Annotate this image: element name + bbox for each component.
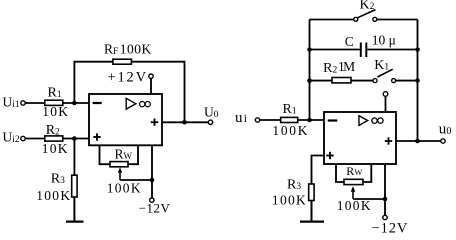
RW wiper arrow: [118, 167, 123, 180]
wire K2 row right: [377, 19, 418, 21]
wire R3 to ground (right): [311, 201, 313, 222]
wire R1 to inverting input: [63, 102, 89, 104]
junction R2 row / left bus: [307, 78, 312, 83]
label RF 100K: [104, 42, 152, 58]
junction C row / right bus: [415, 47, 420, 52]
label +12V: [108, 70, 148, 86]
op-amp A1 gain symbol triangle: [126, 98, 136, 109]
svg-text:100K: 100K: [120, 42, 152, 57]
ground (right): [300, 221, 324, 223]
resistor R2: [45, 136, 63, 141]
power terminal -12V (right): [383, 215, 387, 219]
wire +12V to op-amp V+ pin: [150, 78, 152, 94]
switch K2 left contact: [354, 17, 358, 21]
svg-text:R2: R2: [46, 123, 60, 138]
svg-text:100K: 100K: [272, 193, 307, 208]
svg-text:R1: R1: [283, 102, 297, 117]
node Ui2 input terminal: [21, 136, 25, 140]
wire R2 to noninverting input: [63, 138, 89, 140]
svg-text:−12V: −12V: [139, 200, 171, 215]
power terminal -12V: [150, 198, 154, 202]
resistor R1: [45, 100, 63, 105]
svg-text:ui: ui: [235, 110, 248, 126]
svg-text:Ui1: Ui1: [3, 95, 20, 111]
wire wiper to -12V rail (right): [353, 198, 385, 200]
op-amp A1 body: [89, 94, 162, 145]
wire RW right bracket (right): [363, 164, 371, 182]
op-amp A1 infinity symbol: [140, 102, 151, 107]
label R2: [46, 123, 60, 138]
value 100K of R1 (right): [272, 123, 309, 138]
label RW (right): [346, 164, 362, 178]
wire R1 to inverting input (right): [298, 119, 324, 121]
op-amp A2 body: [324, 112, 396, 164]
wire RW right bracket: [128, 145, 138, 164]
wire RW left bracket (right): [336, 164, 344, 182]
switch K1 right contact: [392, 79, 396, 83]
value 100K of R3 (right): [272, 193, 307, 208]
value 100K of R3: [36, 188, 71, 203]
label U0: [204, 104, 219, 120]
wire op-amp V- pin (right): [384, 164, 386, 215]
label R3: [51, 172, 65, 187]
node Ui1 input terminal: [21, 101, 25, 105]
ground: [66, 221, 84, 223]
label Ui2: [3, 129, 20, 145]
wire op-amp V- pin: [151, 145, 153, 198]
resistor R2 (right): [332, 78, 351, 83]
svg-text:R3: R3: [287, 177, 301, 192]
label ui: [235, 110, 248, 126]
svg-text:10K: 10K: [42, 104, 69, 119]
junction wiper / -12V rail: [150, 178, 155, 183]
label R1: [48, 85, 62, 100]
wire R2 row left: [310, 80, 333, 82]
op-amp A2 gain symbol triangle: [359, 116, 368, 126]
resistor RF: [113, 59, 131, 64]
op-amp A1 output polarity marker: [151, 119, 158, 126]
op-amp A2 inverting input marker: [328, 119, 338, 121]
wire R2 to K1: [351, 80, 373, 82]
op-amp A2 noninverting input marker: [326, 152, 333, 159]
resistor R3 (right): [309, 184, 314, 201]
label Ui1: [3, 95, 20, 111]
RW wiper arrow (right): [351, 186, 356, 199]
svg-text:100K: 100K: [107, 181, 142, 196]
wire C row right: [367, 49, 417, 51]
junction R1 / feedback bus (right): [307, 118, 312, 123]
wire wiper to -12V rail: [120, 179, 152, 181]
wire K2 row left: [310, 19, 354, 21]
potentiometer RW (right): [344, 179, 363, 184]
potentiometer RW: [110, 162, 128, 167]
wire K1 to right bus: [395, 80, 418, 82]
op-amp A2 infinity symbol: [372, 118, 383, 123]
svg-text:K1: K1: [374, 58, 389, 73]
value 10u of C: [372, 32, 396, 47]
wire op-amp output (right): [396, 140, 441, 142]
label K1: [374, 58, 389, 73]
wire Ui1 to R1: [25, 102, 45, 104]
label R2 1M: [323, 59, 355, 76]
label C: [345, 34, 354, 49]
value 100K of RW: [107, 181, 142, 196]
op-amp A1 noninverting input marker: [93, 133, 100, 140]
svg-text:C: C: [345, 34, 354, 49]
svg-text:K2: K2: [360, 0, 375, 13]
label u0: [439, 122, 452, 138]
power terminal V+ (right): [383, 92, 388, 97]
junction wiper / -12V rail (right): [383, 197, 388, 202]
junction output / feedback: [182, 120, 187, 125]
wire feedback left riser: [74, 62, 113, 103]
svg-text:100K: 100K: [36, 188, 71, 203]
junction R2 / R3 node: [72, 136, 77, 141]
switch K2 lever: [358, 10, 376, 18]
label K2: [360, 0, 375, 13]
switch K2 right contact: [373, 17, 377, 21]
wire ui to R1: [260, 119, 281, 121]
switch K1 lever: [377, 69, 392, 77]
svg-text:U0: U0: [204, 104, 219, 120]
svg-text:100K: 100K: [272, 123, 309, 138]
node u0 output terminal: [441, 139, 445, 143]
value 10K of R2: [42, 141, 69, 156]
node ui input terminal: [255, 118, 259, 122]
svg-text:100K: 100K: [337, 198, 372, 213]
wire Ui2 to R2: [25, 138, 45, 140]
wire noninverting input to R3 (right): [312, 156, 325, 185]
wire RF to output node: [131, 62, 184, 123]
node U0 output terminal: [208, 120, 212, 124]
svg-text:RF: RF: [104, 42, 118, 58]
svg-text:Ui2: Ui2: [3, 129, 20, 145]
wire left feedback bus: [309, 20, 311, 121]
capacitor C: [361, 43, 367, 58]
svg-text:RW: RW: [115, 146, 133, 161]
svg-text:10K: 10K: [42, 141, 69, 156]
power terminal +12V: [149, 74, 153, 78]
svg-text:u0: u0: [439, 122, 452, 138]
wire C row left: [310, 49, 360, 51]
svg-text:R3: R3: [51, 172, 65, 187]
svg-text:10 μ: 10 μ: [372, 32, 396, 47]
junction K1 row / right bus: [415, 78, 420, 83]
wire op-amp output: [162, 121, 208, 123]
wire RW left bracket: [100, 145, 111, 164]
wire junction to R3: [73, 139, 75, 176]
value 10K of R1: [42, 104, 69, 119]
value 100K of RW (right): [337, 198, 372, 213]
wire R3 to ground: [73, 197, 75, 222]
op-amp A1 inverting input marker: [93, 102, 102, 104]
svg-text:1M: 1M: [338, 59, 355, 74]
junction output / right bus: [415, 139, 420, 144]
svg-text:−12V: −12V: [372, 221, 409, 233]
resistor R1 (right): [281, 117, 298, 122]
svg-text:R1: R1: [48, 85, 62, 100]
label -12V: [139, 200, 171, 215]
junction C row / left bus: [307, 47, 312, 52]
junction R1 / feedback node: [72, 101, 77, 106]
svg-text:+12V: +12V: [108, 70, 148, 86]
wire V+ terminal to op-amp: [385, 96, 387, 112]
svg-text:RW: RW: [346, 164, 362, 178]
op-amp A2 output polarity marker: [385, 137, 392, 144]
label RW: [115, 146, 133, 161]
switch K1 left contact: [373, 79, 377, 83]
svg-text:R2: R2: [323, 61, 337, 76]
wire right feedback bus: [417, 20, 419, 142]
resistor R3: [72, 175, 77, 197]
label -12V (right): [372, 221, 409, 237]
label R1 (right): [283, 102, 297, 117]
label R3 (right): [287, 177, 301, 192]
